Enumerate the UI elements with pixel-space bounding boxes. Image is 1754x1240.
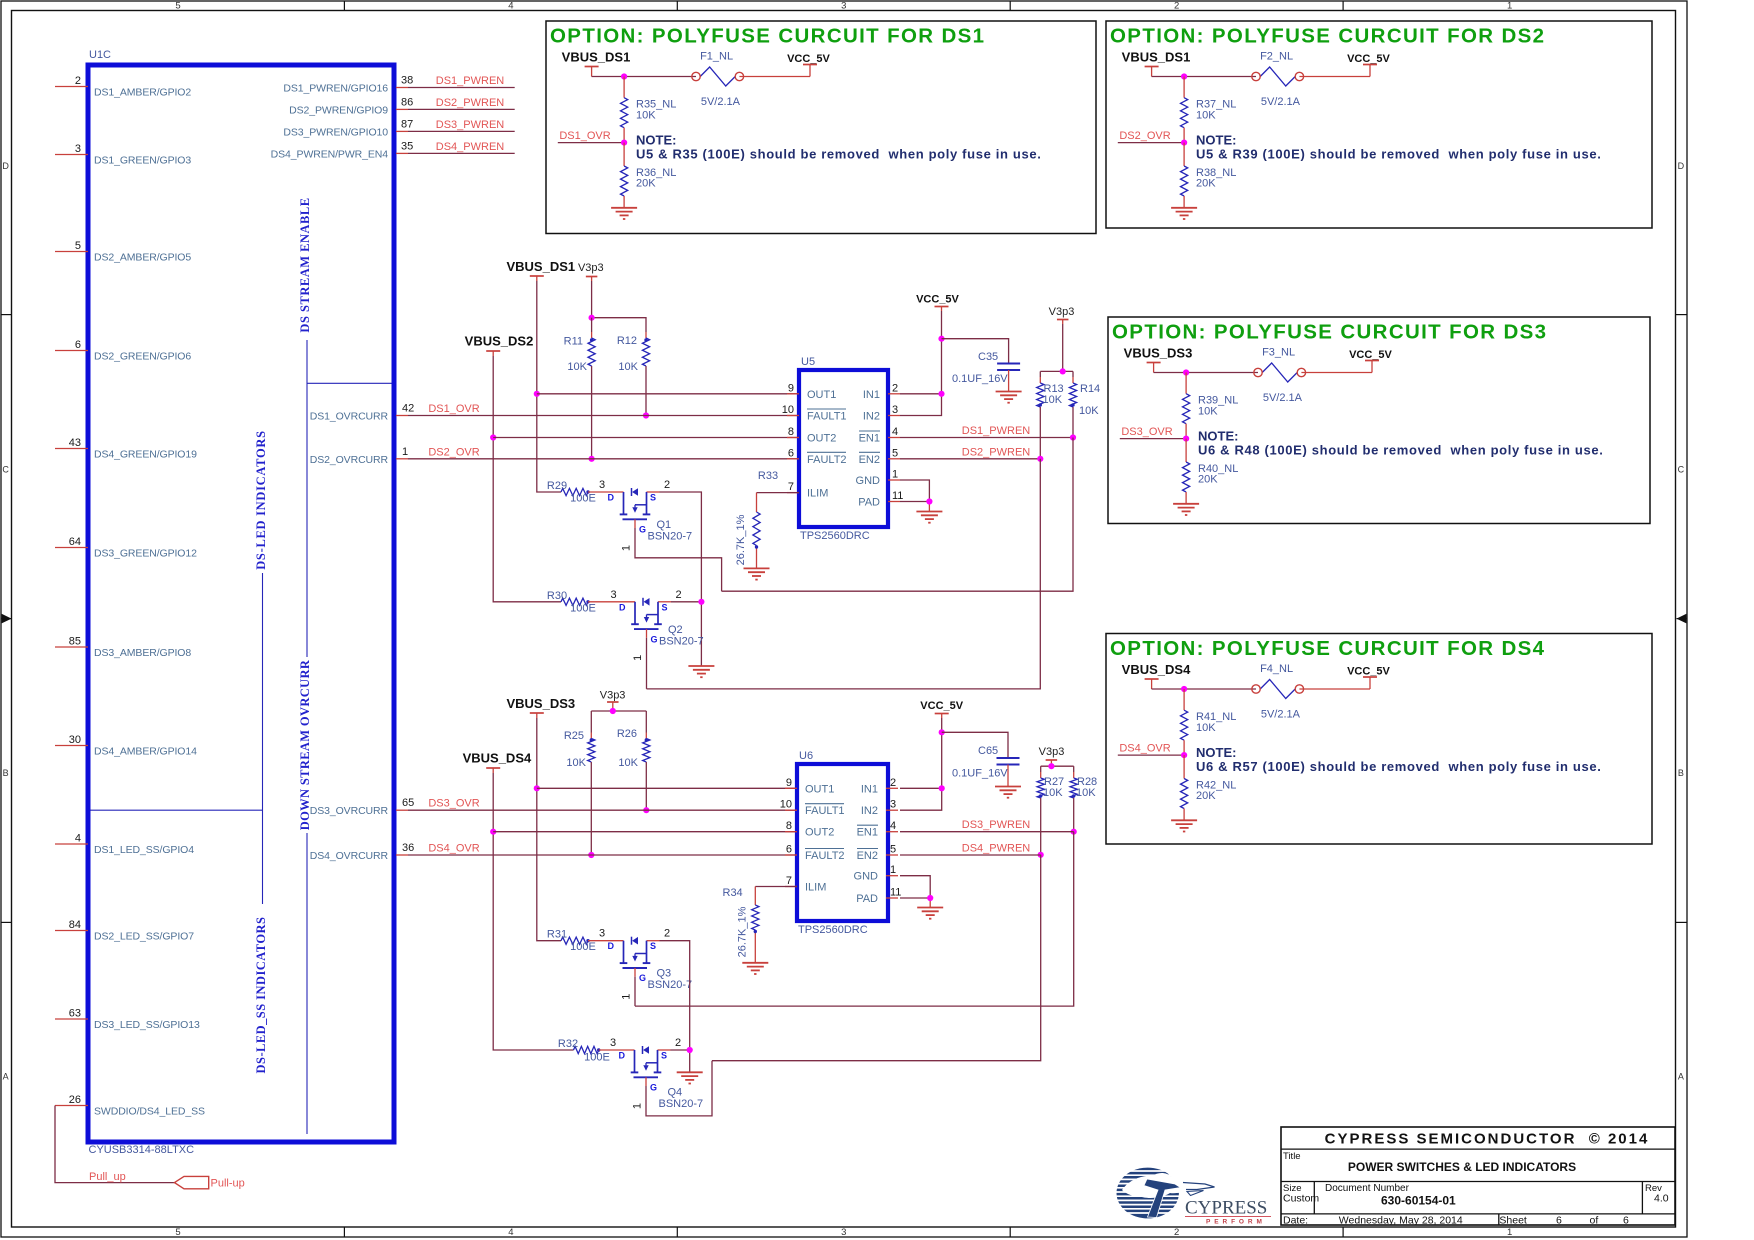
wire VBUS_DS3 rail [537,718,561,941]
svg-text:Sheet: Sheet [1499,1215,1527,1227]
junction VCC-C65 [939,729,945,735]
svg-text:DS2_LED_SS/GPIO7: DS2_LED_SS/GPIO7 [94,930,194,942]
junction R25-FAULT2 [588,852,594,858]
resistor R28 10K [1070,766,1097,832]
title block Rev label [1645,1183,1662,1194]
power flag VCC_5V in box DS1 [787,53,830,76]
svg-text:OPTION: POLYFUSE CURCUIT FOR D: OPTION: POLYFUSE CURCUIT FOR DS4 [1110,637,1545,660]
svg-text:G: G [639,973,646,983]
power flag VBUS_DS2 [465,334,534,357]
resistor R36_NL 20K [621,143,677,208]
note text DS4 [1196,745,1601,774]
power flag VBUS_DS4 in box DS4 [1122,662,1191,689]
wire EN1 net DS3_PWREN [900,831,1074,833]
svg-text:Wednesday, May 28, 2014: Wednesday, May 28, 2014 [1339,1215,1463,1227]
svg-text:0.1UF_16V: 0.1UF_16V [952,373,1008,385]
junction VCC-IN1 U6 [939,785,945,791]
junction DS4_OVR node [1181,752,1187,758]
wire vbus rail in box DS1 [592,76,810,78]
svg-text:R12: R12 [617,335,637,347]
net label DS2_OVR [428,446,479,458]
power flag V3p3 lower right [1039,746,1065,766]
resistor R31 100E [547,929,596,954]
option box DS2 title [1110,25,1545,48]
svg-text:DS1_PWREN: DS1_PWREN [436,75,505,87]
svg-text:B: B [1678,768,1684,778]
svg-text:VBUS_DS4: VBUS_DS4 [1122,662,1191,677]
fuse F3_NL [1254,347,1306,383]
svg-text:DS4_PWREN: DS4_PWREN [436,141,505,153]
svg-text:FAULT1: FAULT1 [807,411,847,423]
logo red underline [1185,1216,1271,1218]
svg-text:9: 9 [786,777,792,789]
svg-text:CYPRESS: CYPRESS [1185,1198,1267,1219]
IC U1C section label DS STREAM ENABLE [298,197,312,332]
svg-text:VBUS_DS2: VBUS_DS2 [465,334,534,349]
svg-text:Title: Title [1283,1151,1301,1162]
wire DS2_OVR net (FAULT2) [408,458,799,460]
svg-text:OUT2: OUT2 [807,433,836,445]
IC U1C pin 87 DS3_PWREN/GPIO10 [283,118,413,138]
IC U1C pin 35 DS4_PWREN/PWR_EN4 [271,140,414,160]
svg-text:D: D [619,602,626,612]
svg-text:S: S [661,1051,667,1061]
note text DS3 [1198,429,1603,458]
wire net DS4_OVR stub [1118,754,1184,756]
svg-text:OUT2: OUT2 [805,827,834,839]
wire net DS1_PWREN [408,87,515,89]
fuse rating 5V/2.1A DS3 [1263,392,1303,404]
svg-text:84: 84 [69,919,81,931]
wire VBUS_DS4 rail [493,773,573,1050]
svg-text:U6 & R57 (100E) should be remo: U6 & R57 (100E) should be removed when p… [1196,759,1601,774]
svg-text:DS1_OVRCURR: DS1_OVRCURR [310,411,389,423]
junction DS2_OVR node [1181,140,1187,146]
svg-text:1: 1 [402,446,408,458]
svg-text:8: 8 [788,426,794,438]
svg-text:DS3_OVRCURR: DS3_OVRCURR [310,805,389,817]
IC U6 body [797,764,888,921]
ground in box DS1 [611,208,637,219]
wire VBUS_DS1 rail [537,281,561,492]
svg-text:POWER SWITCHES & LED INDICATOR: POWER SWITCHES & LED INDICATORS [1348,1160,1576,1174]
junction U5 GND-PAD [926,498,932,504]
svg-text:6: 6 [788,447,794,459]
wire EN2 net DS2_PWREN [900,458,1040,460]
svg-text:DS1_PWREN/GPIO16: DS1_PWREN/GPIO16 [283,83,388,95]
IC U5 part TPS2560DRC [800,530,870,542]
resistor R26 10K [617,711,650,810]
fuse F1_NL [692,51,744,87]
svg-text:DS3_OVR: DS3_OVR [1121,426,1172,438]
svg-text:TPS2560DRC: TPS2560DRC [798,924,868,936]
svg-text:VBUS_DS4: VBUS_DS4 [463,751,532,766]
svg-text:DS2_PWREN: DS2_PWREN [436,97,505,109]
svg-text:BSN20-7: BSN20-7 [659,1098,704,1110]
net label Pull_up [89,1171,126,1183]
junction V3p3 lower right node [1048,763,1054,769]
svg-text:1: 1 [621,994,633,1000]
junction V3p3 right node [1060,368,1066,374]
svg-text:NOTE:: NOTE: [1196,745,1236,760]
power flag VCC_5V in box DS3 [1349,349,1392,372]
IC U1C pin 30 DS4_AMBER/GPIO14 [55,734,197,757]
junction DS2 fuse node [1181,73,1187,79]
IC U6 refdes [799,750,813,762]
svg-text:5: 5 [75,240,81,252]
junction VCC-IN1 [938,391,944,397]
svg-text:5: 5 [890,844,896,856]
IC U5 body [799,370,888,527]
svg-text:DS1_GREEN/GPIO3: DS1_GREEN/GPIO3 [94,154,191,166]
wire VCC_5V to IN1 IN2 U6 [900,718,942,810]
wire R13 vertical to Q2 gate [647,459,1041,689]
svg-text:R32: R32 [558,1038,578,1050]
svg-text:TPS2560DRC: TPS2560DRC [800,530,870,542]
power flag VBUS_DS3 [506,696,575,718]
junction DS3_OVR node [1183,436,1189,442]
svg-text:10K: 10K [567,361,587,373]
svg-text:A: A [3,1072,9,1082]
svg-text:D: D [1678,161,1685,171]
IC U1C refdes [89,49,111,61]
svg-text:20K: 20K [636,178,656,190]
note text DS2 [1196,133,1601,162]
svg-text:DS STREAM ENABLE: DS STREAM ENABLE [298,197,312,332]
svg-text:V3p3: V3p3 [578,262,604,274]
svg-text:VBUS_DS1: VBUS_DS1 [562,50,631,65]
fuse F4_NL [1252,663,1304,699]
svg-text:8: 8 [786,820,792,832]
svg-text:1: 1 [632,1103,644,1109]
svg-text:VCC_5V: VCC_5V [1347,666,1390,678]
svg-text:63: 63 [69,1008,81,1020]
svg-text:IN2: IN2 [861,805,878,817]
svg-text:2: 2 [75,75,81,87]
wire ILIM U5 [757,492,800,494]
svg-text:10K: 10K [1079,405,1099,417]
svg-text:4: 4 [892,426,898,438]
svg-text:CYPRESS SEMICONDUCTOR © 2014: CYPRESS SEMICONDUCTOR © 2014 [1325,1131,1650,1148]
resistor R13 10K [1037,371,1064,458]
svg-text:C35: C35 [978,351,998,363]
svg-text:2: 2 [1174,1,1179,12]
svg-text:4.0: 4.0 [1654,1193,1669,1205]
resistor R25 10K [564,711,595,855]
wire OUT1 net U6 [537,787,797,789]
svg-text:10K: 10K [1076,787,1096,799]
wire net DS2_PWREN [408,108,515,110]
svg-text:FAULT2: FAULT2 [807,454,847,466]
IC U1C body [88,65,394,1142]
title block Date label [1283,1215,1308,1227]
svg-text:S: S [650,493,656,503]
wire net DS2_OVR stub [1118,142,1184,144]
IC U1C pin 43 DS4_GREEN/GPIO19 [55,437,197,460]
ground in box DS4 [1171,820,1197,831]
svg-text:Date:: Date: [1283,1215,1308,1227]
svg-text:SWDDIO/DS4_LED_SS: SWDDIO/DS4_LED_SS [94,1105,205,1117]
net label DS2_OVR [1119,130,1170,142]
svg-text:Custom: Custom [1283,1193,1319,1205]
svg-text:4: 4 [890,820,896,832]
svg-text:NOTE:: NOTE: [636,133,676,148]
wire R14 vertical to Q1 gate [722,438,1073,592]
fuse rating 5V/2.1A DS4 [1261,709,1301,721]
svg-text:CYUSB3314-88LTXC: CYUSB3314-88LTXC [89,1144,195,1156]
svg-text:9: 9 [788,382,794,394]
junction VBUS_DS3-OUT1 [534,785,540,791]
svg-text:Pull-up: Pull-up [211,1178,245,1190]
fuse rating 5V/2.1A DS1 [701,96,741,108]
net label DS3_PWREN [962,819,1031,831]
IC U1C pin 86 DS2_PWREN/GPIO9 [289,96,413,116]
svg-text:43: 43 [69,437,81,449]
svg-text:Q3: Q3 [657,968,672,980]
wire EN1 net DS1_PWREN [900,437,1073,439]
svg-text:1: 1 [890,864,896,876]
wire DS4_OVR net (FAULT2 U6) [408,854,797,856]
svg-text:4: 4 [508,1227,513,1238]
net label DS1_OVR [428,403,479,415]
junction R28-EN1 net [1071,829,1077,835]
svg-text:VBUS_DS1: VBUS_DS1 [506,259,575,274]
svg-text:IN2: IN2 [863,411,880,423]
IC U1C pin 6 DS2_GREEN/GPIO6 [55,339,191,362]
junction R26-FAULT1 [643,807,649,813]
title block size value [1283,1193,1319,1205]
svg-text:DS4_OVRCURR: DS4_OVRCURR [310,850,389,862]
svg-text:5: 5 [892,447,898,459]
svg-text:U5: U5 [801,356,815,368]
svg-text:D: D [2,161,9,171]
svg-text:3: 3 [610,1037,616,1049]
IC U1C pin 84 DS2_LED_SS/GPIO7 [55,919,194,942]
svg-text:5V/2.1A: 5V/2.1A [701,96,741,108]
wire Q3 gate to DS3_PWREN [634,977,636,1006]
junction DS1 fuse node [621,73,627,79]
svg-text:36: 36 [402,842,414,854]
svg-text:4: 4 [508,1,513,12]
ground in box DS2 [1171,208,1197,219]
transistor Q2 BSN20-7 [588,589,704,661]
off-page connector Pull-up [175,1176,245,1189]
IC U6 pins [780,777,902,905]
svg-text:DS3_PWREN/GPIO10: DS3_PWREN/GPIO10 [283,126,388,138]
resistor R34 26.7K_1% [723,887,759,963]
resistor R39_NL 10K [1183,373,1239,439]
IC U1C pin 1 DS2_OVRCURR [310,446,408,466]
wire DS1_OVR net (FAULT1) [408,415,799,417]
svg-text:6: 6 [75,339,81,351]
frame center arrow left [2,614,12,624]
wire R27 vertical to Q4 gate [712,855,1041,1061]
wire net DS4_PWREN [408,152,515,154]
svg-text:Q1: Q1 [657,519,672,531]
svg-text:6: 6 [1556,1215,1562,1227]
note text DS1 [636,133,1041,162]
wire Q1 source rail [660,492,702,666]
svg-text:3: 3 [75,143,81,155]
svg-text:F2_NL: F2_NL [1260,51,1293,63]
svg-text:VCC_5V: VCC_5V [1349,349,1392,361]
svg-text:0.1UF_16V: 0.1UF_16V [952,768,1008,780]
ground under U6 [917,908,943,919]
wire OUT2 net [493,437,799,439]
power flag VBUS_DS1 in box DS1 [562,50,631,77]
svg-text:OPTION: POLYFUSE CURCUIT FOR D: OPTION: POLYFUSE CURCUIT FOR DS3 [1112,321,1547,344]
svg-text:A: A [1678,1072,1684,1082]
junction R14-EN1 net [1070,434,1076,440]
svg-text:B: B [3,768,9,778]
svg-text:S: S [662,602,668,612]
svg-text:R29: R29 [547,480,567,492]
svg-text:DS3_GREEN/GPIO12: DS3_GREEN/GPIO12 [94,547,197,559]
svg-text:FAULT2: FAULT2 [805,850,845,862]
IC U1C pin 85 DS3_AMBER/GPIO8 [55,636,191,659]
svg-text:R11: R11 [564,336,583,348]
svg-text:V3p3: V3p3 [1049,306,1075,318]
svg-text:OUT1: OUT1 [805,783,834,795]
svg-text:C: C [1678,465,1685,475]
svg-text:DS2_OVR: DS2_OVR [428,446,479,458]
net label DS1_PWREN [436,75,505,87]
svg-text:10K: 10K [1043,394,1063,406]
resistor R14 10K [1069,371,1100,437]
svg-text:EN1: EN1 [859,433,880,445]
svg-text:GND: GND [854,871,879,883]
svg-text:DS4_AMBER/GPIO14: DS4_AMBER/GPIO14 [94,745,197,757]
IC U1C section label DS-LED INDICATORS [254,430,268,570]
svg-text:2: 2 [1174,1227,1179,1238]
wire ILIM U6 [755,886,797,888]
svg-text:V3p3: V3p3 [1039,746,1065,758]
svg-text:Q2: Q2 [668,624,683,636]
option box DS4 title [1110,637,1545,660]
wire OUT1 net [537,393,799,395]
svg-text:11: 11 [890,887,901,899]
svg-text:26: 26 [69,1094,81,1106]
svg-text:EN2: EN2 [859,454,880,466]
svg-text:DS4_GREEN/GPIO19: DS4_GREEN/GPIO19 [94,448,197,460]
junction V3p3 lower node [610,708,616,714]
power flag VBUS_DS4 [463,751,532,774]
svg-text:7: 7 [786,875,792,887]
svg-text:ILIM: ILIM [807,488,828,500]
svg-text:of: of [1590,1215,1599,1227]
title block Size label [1283,1183,1301,1194]
net label DS3_OVR [428,798,479,810]
option box DS3 border [1108,317,1650,524]
capacitor C35 0.1UF_16V [942,339,1021,392]
svg-text:7: 7 [788,481,794,493]
frame center arrow right [1677,614,1687,624]
svg-text:3: 3 [841,1,846,12]
resistor R33 26.7K_1% [735,470,778,568]
transistor Q4 BSN20-7 [599,1037,703,1110]
svg-text:DS3_PWREN: DS3_PWREN [436,119,505,131]
svg-text:5V/2.1A: 5V/2.1A [1261,96,1301,108]
resistor R27 10K [1037,766,1064,855]
IC U1C pin 63 DS3_LED_SS/GPIO13 [55,1008,200,1031]
title block frame [1281,1127,1675,1225]
svg-text:DS2_OVRCURR: DS2_OVRCURR [310,454,389,466]
junction DS4 fuse node [1181,686,1187,692]
wire U6 GND PAD [900,876,930,908]
title block Document Number label [1325,1183,1410,1194]
power flag V3p3 lower [600,690,626,712]
svg-text:DS2_AMBER/GPIO5: DS2_AMBER/GPIO5 [94,251,191,263]
svg-text:3: 3 [599,479,605,491]
svg-text:1: 1 [892,469,898,481]
svg-text:DS3_AMBER/GPIO8: DS3_AMBER/GPIO8 [94,647,191,659]
wire net DS3_PWREN [408,130,515,132]
svg-text:DS4_PWREN/PWR_EN4: DS4_PWREN/PWR_EN4 [271,148,389,160]
svg-text:2: 2 [664,479,670,491]
svg-text:10K: 10K [566,757,586,769]
svg-text:6: 6 [786,844,792,856]
junction V3p3 upper node [589,315,595,321]
net label DS4_OVR [428,843,479,855]
svg-text:DS4_PWREN: DS4_PWREN [962,843,1031,855]
svg-text:VCC_5V: VCC_5V [920,700,963,712]
logo perform text [1206,1219,1266,1226]
svg-text:2: 2 [890,777,896,789]
net label DS3_PWREN [436,119,505,131]
IC U1C section label DS-LED_SS INDICATORS [254,917,268,1074]
IC U1C section divider (DS-LED_SS) [91,573,263,904]
svg-text:EN2: EN2 [857,850,878,862]
svg-text:10K: 10K [618,757,638,769]
junction Q3Q4 source rail [687,1047,693,1053]
svg-text:VBUS_DS3: VBUS_DS3 [1124,346,1193,361]
IC U1C pin 4 DS1_LED_SS/GPIO4 [55,833,194,856]
svg-text:4: 4 [75,833,81,845]
IC U1C section divider (DOWN STREAM OVRCURR) [306,833,308,1134]
svg-text:OPTION: POLYFUSE CURCUIT FOR D: OPTION: POLYFUSE CURCUIT FOR DS1 [550,25,985,48]
IC U5 pins [782,382,904,508]
svg-text:DS3_LED_SS/GPIO13: DS3_LED_SS/GPIO13 [94,1019,200,1031]
svg-text:R33: R33 [758,470,778,482]
wire pin26 to pull-up connector [55,1106,175,1183]
power flag VCC_5V lower [920,700,963,718]
svg-text:2: 2 [892,382,898,394]
svg-text:PAD: PAD [858,497,880,509]
svg-text:DS2_PWREN: DS2_PWREN [962,446,1031,458]
wire vbus rail in box DS4 [1152,688,1370,690]
svg-text:R31: R31 [547,929,567,941]
svg-text:3: 3 [841,1227,846,1238]
capacitor C65 0.1UF_16V [942,732,1020,786]
svg-text:NOTE:: NOTE: [1198,429,1238,444]
junction DS1_OVR node [621,140,627,146]
svg-text:1: 1 [621,545,633,551]
IC U5 refdes [801,356,815,368]
transistor Q1 BSN20-7 [588,479,692,551]
svg-text:10K: 10K [636,109,656,121]
wire V3p3 to R13 R14 [1040,324,1073,371]
net label DS1_OVR [559,130,610,142]
svg-text:10K: 10K [618,361,638,373]
svg-text:DS1_LED_SS/GPIO4: DS1_LED_SS/GPIO4 [94,844,194,856]
svg-text:26.7K_1%: 26.7K_1% [735,514,747,565]
svg-text:G: G [650,1083,657,1093]
svg-text:R26: R26 [617,728,637,740]
wire net DS1_OVR stub [558,142,624,144]
svg-text:U6 & R48 (100E) should be remo: U6 & R48 (100E) should be removed when p… [1198,442,1603,457]
net label DS4_OVR [1119,743,1170,755]
resistor R29 100E [547,480,596,505]
